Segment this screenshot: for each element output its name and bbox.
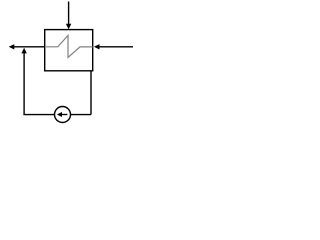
wire: recirculation downcomer right from HX1 bottom: [90, 71, 92, 115]
arrowhead: left outlet pointing left: [9, 44, 15, 49]
wire: left outlet from HX1: [14, 46, 45, 48]
wire: recirculation riser left: [23, 53, 25, 115]
arrowhead: right inlet pointing left into HX1: [94, 44, 100, 49]
wire: recirculation bottom run: [23, 114, 91, 116]
pump P1 flow arrow shaft: [61, 114, 67, 116]
arrowhead: pump P1 flow pointing left: [57, 112, 62, 117]
wire: top inlet into HX1: [68, 2, 70, 26]
pump P1 (circulator): [55, 107, 71, 123]
heating element zigzag inside HX1: [45, 35, 93, 57]
arrowhead: recirculation joining left outlet pointing up: [21, 48, 26, 54]
arrowhead: top inlet pointing down: [66, 24, 71, 30]
heat exchanger block HX1: [45, 30, 93, 71]
wire: right inlet into HX1: [99, 46, 133, 48]
